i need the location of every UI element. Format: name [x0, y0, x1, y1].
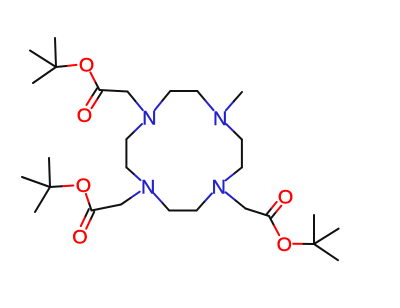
- bond N2-CH3 methyl: [226, 92, 242, 110]
- ring bond C-N4: [226, 167, 242, 180]
- ring bond C-N2: [197, 91, 213, 110]
- svg-text:N: N: [142, 108, 156, 130]
- ring bond C-C left: [125, 139, 127, 167]
- tBu3 methyl b: [22, 177, 50, 187]
- svg-text:O: O: [76, 175, 91, 197]
- svg-text:O: O: [278, 187, 293, 209]
- ring bond C-C right: [241, 140, 243, 168]
- tBu4 methyl c: [314, 244, 338, 260]
- bond CH2-C arm4: [246, 209, 270, 217]
- bond CH2-C arm1: [100, 90, 128, 92]
- bond O-C(tBu) arm4: [293, 243, 314, 245]
- bond O-C(tBu) arm3: [50, 186, 73, 188]
- bond CH2-C arm3: [92, 205, 122, 211]
- tBu1 methyl a: [55, 38, 56, 67]
- ring bond N1-C: [155, 91, 171, 110]
- double bond C=O arm3: [81, 209, 94, 229]
- svg-text:O: O: [72, 226, 87, 248]
- ring bond C-C bottom: [169, 210, 196, 212]
- ring bond C-N3: [154, 194, 169, 211]
- ring bond C-N1: [126, 124, 142, 139]
- bond N1-CH2 arm1: [128, 92, 143, 111]
- tBu1 methyl b: [30, 51, 56, 68]
- bond N4-CH2 arm4: [226, 192, 246, 208]
- double bond C=O arm4: [267, 202, 282, 218]
- tBu4 methyl a: [313, 215, 315, 244]
- tBu4 methyl b: [314, 229, 339, 244]
- bond C-O ester arm4: [269, 216, 279, 235]
- svg-text:N: N: [213, 108, 227, 130]
- tBu1 methyl c: [33, 67, 56, 83]
- svg-text:N: N: [212, 177, 226, 199]
- svg-text:O: O: [79, 54, 94, 76]
- bond C-O ester arm3: [86, 194, 92, 211]
- bond C-O ester arm1: [90, 72, 99, 90]
- ring bond C-C top: [170, 90, 197, 92]
- ring bond N2-C: [226, 124, 242, 139]
- tBu3 methyl c: [35, 187, 50, 212]
- svg-text:O: O: [77, 105, 92, 127]
- bond N3-CH2 arm3: [121, 192, 140, 205]
- svg-text:N: N: [141, 177, 155, 199]
- bond O-C(tBu) arm1: [56, 65, 77, 67]
- tBu3 methyl a: [49, 158, 50, 187]
- double bond C=O arm1: [87, 88, 103, 108]
- ring bond N4-C: [197, 193, 212, 210]
- svg-text:O: O: [277, 234, 292, 256]
- ring bond N3-C: [126, 167, 140, 180]
